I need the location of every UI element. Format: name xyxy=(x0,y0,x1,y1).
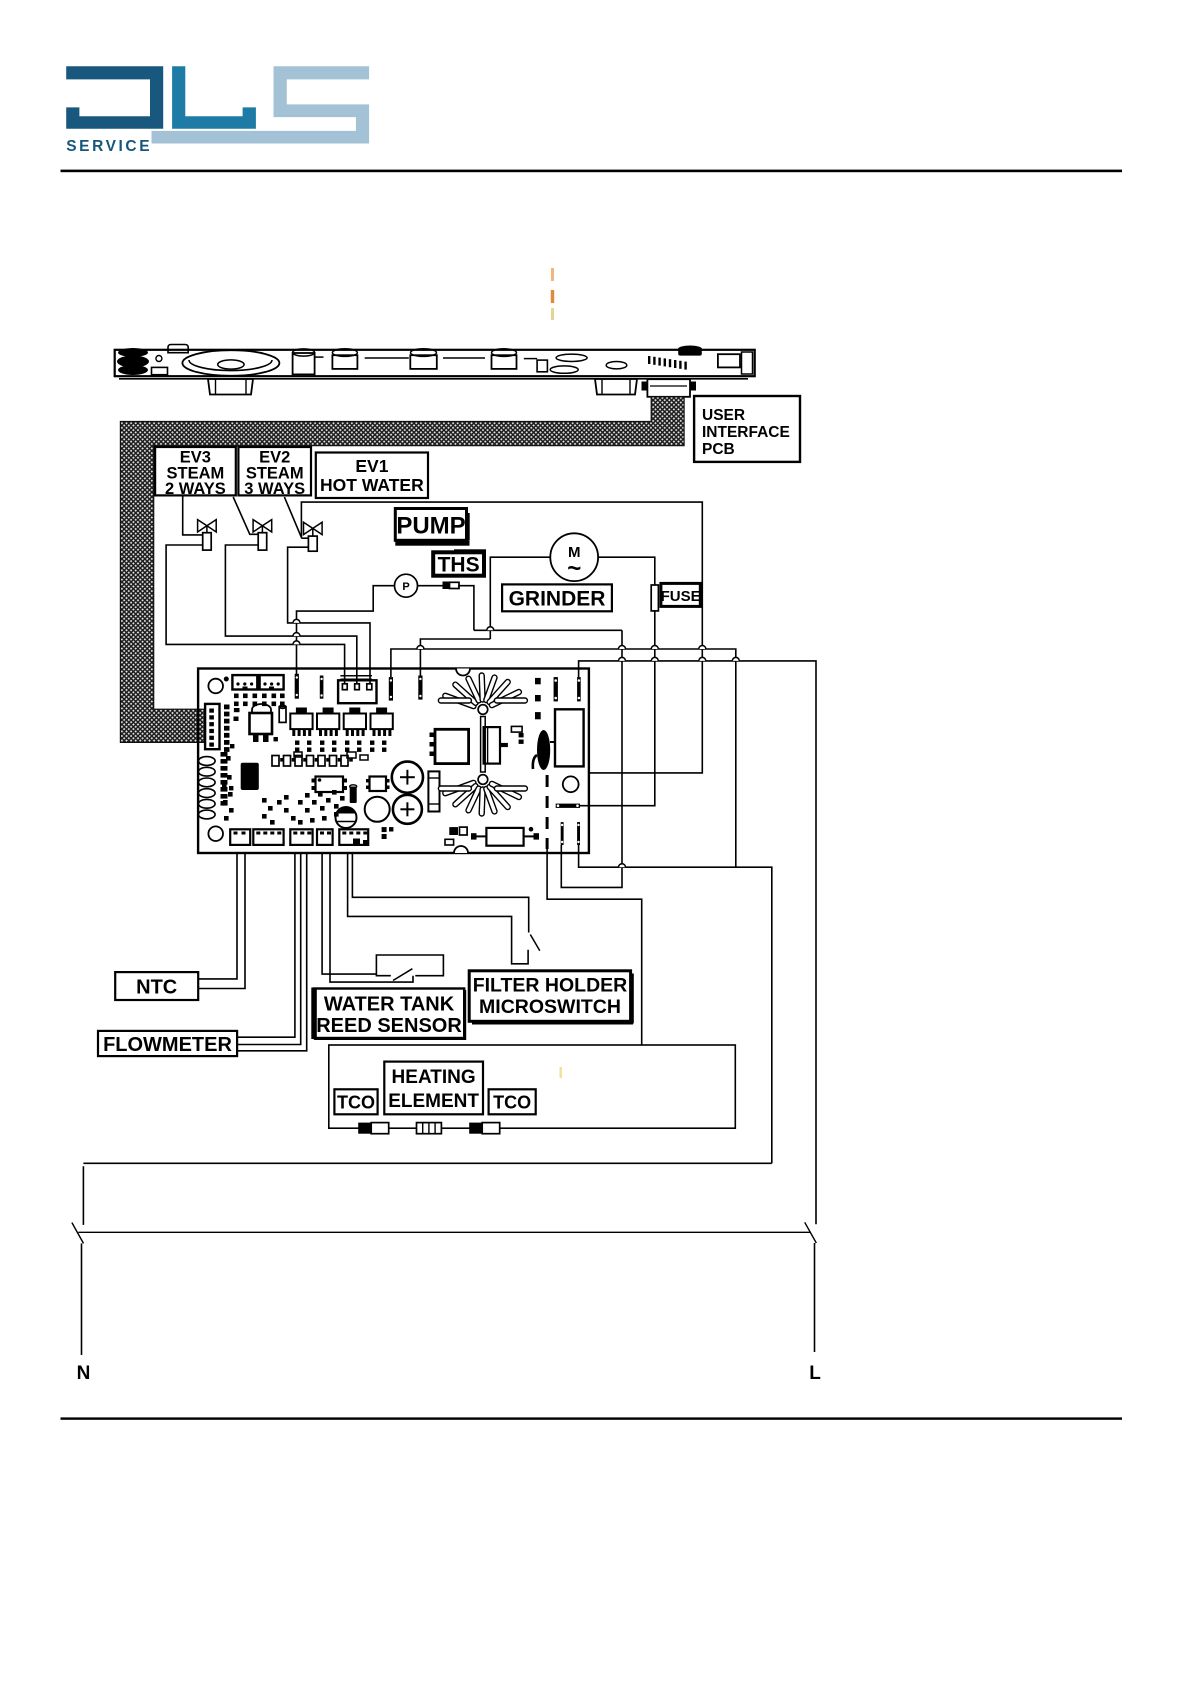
logo letter L mid blue xyxy=(172,66,256,129)
live cord break slash xyxy=(805,1222,817,1243)
label box GRINDER xyxy=(502,584,612,611)
heatsink center divider xyxy=(481,717,486,773)
wire grinder left to line A xyxy=(490,557,550,639)
wire NTC 2 xyxy=(198,853,245,989)
TCO thermal cutoff element right xyxy=(469,1123,482,1134)
UI PCB center oval xyxy=(606,362,627,369)
pump pressure sensor circle P xyxy=(395,574,418,597)
wire reed sensor 2 xyxy=(330,853,413,982)
connector J9 3-pin EV harness xyxy=(340,675,372,677)
top horizontal rule xyxy=(61,170,1123,173)
small rects mid xyxy=(347,752,356,758)
UI PCB LED cylinder xyxy=(293,353,315,374)
relay K2 xyxy=(317,714,339,730)
connector J1 3-pin xyxy=(232,675,257,689)
wire EV2 valve return to PCB connector xyxy=(225,545,356,684)
label box FLOWMETER xyxy=(98,1031,237,1056)
UI PCB trace line 2 xyxy=(443,357,485,359)
logo letter S light blue xyxy=(152,66,370,143)
wire flowmeter 1 xyxy=(237,853,295,1037)
connector J2 3-pin xyxy=(260,675,284,689)
UI PCB buzzer outer xyxy=(182,350,279,376)
wire flowmeter 3 xyxy=(237,853,307,1051)
wire EV3 valve return to PCB connector xyxy=(166,545,345,684)
label box EV3 STEAM 2 WAYS xyxy=(155,447,236,495)
passives column x535 xyxy=(535,678,541,684)
capacitor C3 xyxy=(365,797,390,822)
IC U1 dark xyxy=(241,763,259,790)
svg-text:TCO: TCO xyxy=(337,1093,375,1113)
label box NTC xyxy=(115,972,198,1000)
label box THS xyxy=(454,549,486,553)
ribbon cable to user interface PCB xyxy=(120,397,684,743)
passives left cluster xyxy=(226,756,231,761)
wire flowmeter 2 xyxy=(237,853,301,1045)
power PCB bottom notch xyxy=(454,846,468,853)
connector J8 ribbon header xyxy=(205,704,219,749)
wire NTC 1 xyxy=(198,853,237,979)
UI PCB small hole xyxy=(156,356,162,362)
wire live cord bottom xyxy=(814,1243,816,1352)
svg-text:HEATING: HEATING xyxy=(392,1067,476,1088)
svg-text:~: ~ xyxy=(567,555,581,582)
orange scan dashes xyxy=(551,268,554,281)
relay K4 xyxy=(371,714,393,730)
pad bar top 4 xyxy=(418,676,422,700)
svg-text:GRINDER: GRINDER xyxy=(509,588,606,611)
wire line A pump-grinder mains xyxy=(474,629,622,631)
wire PCB pad to line A xyxy=(420,639,490,677)
mains cord middle wire xyxy=(78,1231,810,1233)
svg-text:FUSE: FUSE xyxy=(661,588,701,605)
transistor Q3 xyxy=(484,727,500,764)
capacitor C5 small xyxy=(279,707,286,723)
wire heating element feed xyxy=(547,849,642,1045)
svg-text:TCO: TCO xyxy=(493,1093,531,1113)
power PCB board outline xyxy=(198,669,589,854)
capacitor C1 electrolytic xyxy=(392,762,423,793)
UI PCB tact switch 2 xyxy=(411,349,437,357)
label box USER INTERFACE PCB xyxy=(694,396,800,462)
card edge fingers left xyxy=(199,757,216,766)
grinder motor circle M xyxy=(550,533,598,581)
wire pump to PCB xyxy=(297,586,395,674)
pad bar top right 1 xyxy=(554,677,558,701)
bottom connector J3 xyxy=(230,829,250,845)
wire neutral cord top xyxy=(82,1166,84,1225)
logo letter D dark blue xyxy=(66,66,163,129)
UI PCB mounting tab left xyxy=(208,379,253,395)
wire enclosure mains loop xyxy=(301,502,702,773)
capacitor C6 dark cylinder xyxy=(350,787,357,804)
bottom connector J5 xyxy=(290,829,312,845)
svg-text:THS: THS xyxy=(438,554,480,577)
wire microswitch 2 xyxy=(348,853,528,964)
power PCB mounting hole bottom-left xyxy=(208,826,223,841)
fuse element xyxy=(651,585,658,611)
bottom connector J4 xyxy=(253,829,283,845)
UI PCB flat pads xyxy=(550,366,578,373)
relay K5 large xyxy=(555,709,584,766)
pad bar bottom right 1 xyxy=(561,822,564,845)
passives near J8 xyxy=(234,708,240,712)
THS thermal fuse element xyxy=(443,582,450,590)
pad bar bottom right 2 xyxy=(577,822,580,845)
wire line C live bus xyxy=(579,661,816,1224)
label box FUSE xyxy=(661,583,700,606)
UI PCB pin comb xyxy=(648,356,650,364)
heatsink starburst top xyxy=(445,696,473,706)
user interface PCB board strip xyxy=(115,350,755,376)
component bottom right pair xyxy=(449,827,458,835)
wire EV1 valve return to PCB connector xyxy=(288,547,370,684)
svg-text:USER: USER xyxy=(702,407,745,424)
bottom connector J7 xyxy=(339,829,368,845)
UI PCB left encoder stack xyxy=(118,348,148,357)
capacitor C2 electrolytic xyxy=(393,795,422,824)
small passives under J1 J2 xyxy=(234,694,239,699)
svg-text:L: L xyxy=(809,1363,821,1384)
passives column right of J8 xyxy=(224,705,230,710)
neutral cord break slash xyxy=(72,1223,84,1244)
svg-text:MICROSWITCH: MICROSWITCH xyxy=(479,996,621,1018)
transistor Q2 TO-247 xyxy=(435,729,469,763)
power PCB mounting hole top-left xyxy=(208,679,223,694)
bottom connector J6 xyxy=(317,829,333,845)
label box EV2 STEAM 3 WAYS xyxy=(238,447,311,495)
svg-text:P: P xyxy=(402,581,409,593)
inductor L1 dark xyxy=(537,730,550,770)
UI PCB tact switch 3 xyxy=(492,349,517,357)
relay K1 xyxy=(290,714,312,730)
label box TCO left xyxy=(334,1089,377,1114)
wire EV3 label to valve xyxy=(183,495,203,535)
label box EV1 HOT WATER xyxy=(316,453,428,499)
label box HEATING ELEMENT xyxy=(384,1062,483,1115)
svg-text:FILTER HOLDER: FILTER HOLDER xyxy=(473,975,628,997)
UI PCB mounting tab right xyxy=(595,379,637,395)
svg-text:NTC: NTC xyxy=(136,977,177,999)
pad bar top right 2 xyxy=(577,677,581,701)
UI PCB right edge parts xyxy=(742,352,753,374)
svg-text:HOT WATER: HOT WATER xyxy=(320,475,424,495)
wire grinder right to fuse xyxy=(598,557,655,585)
crystal Y1 xyxy=(486,828,523,846)
water tank reed sensor switch symbol xyxy=(376,955,443,976)
UI PCB trace line xyxy=(365,357,409,359)
UI PCB buzzer inner ring xyxy=(189,360,272,371)
passives row under relays xyxy=(295,741,299,745)
solenoid valve EV3 xyxy=(198,520,207,532)
svg-text:FLOWMETER: FLOWMETER xyxy=(103,1034,232,1056)
IC U3 opto xyxy=(370,777,387,792)
label box WATER TANK REED SENSOR xyxy=(314,989,464,1039)
power PCB top notch xyxy=(456,669,470,676)
svg-text:EV1: EV1 xyxy=(355,456,388,476)
solenoid valve EV2 xyxy=(253,520,262,532)
transistor row xyxy=(272,756,279,767)
UI PCB dark part right xyxy=(678,348,702,355)
UI PCB ribbon connector xyxy=(647,379,690,397)
wire reed sensor 1 xyxy=(322,853,376,974)
power PCB mounting hole right xyxy=(563,776,579,792)
wire neutral cord bottom xyxy=(81,1243,83,1355)
svg-text:INTERFACE: INTERFACE xyxy=(702,424,790,441)
svg-text:2 WAYS: 2 WAYS xyxy=(165,480,226,498)
crossing hops xyxy=(487,627,494,630)
UI PCB tact switch 1 xyxy=(332,349,357,357)
UI PCB buzzer hub xyxy=(218,360,244,369)
label box FILTER HOLDER MICROSWITCH xyxy=(469,971,630,1022)
svg-text:ELEMENT: ELEMENT xyxy=(388,1091,479,1112)
transistor Q1 TO-252 xyxy=(252,704,271,713)
heating element resistor xyxy=(417,1123,442,1134)
pad bar top 3 xyxy=(389,677,393,701)
TCO thermal cutoff element left xyxy=(358,1123,371,1134)
svg-text:N: N xyxy=(77,1363,91,1384)
relay K3 xyxy=(344,714,366,730)
wire THS to mains line A xyxy=(458,586,474,631)
label box PUMP xyxy=(395,509,466,541)
resistor R1 vertical xyxy=(428,771,439,811)
heatsink starburst bottom xyxy=(445,783,473,793)
left column bars 303 xyxy=(221,752,228,757)
svg-text:PCB: PCB xyxy=(702,441,735,458)
wire EV2 label to valve xyxy=(233,497,258,534)
wire microswitch 1 xyxy=(352,853,528,933)
pad bar top 2 xyxy=(320,676,324,699)
isolation dashed line xyxy=(546,775,549,849)
filter holder microswitch blade xyxy=(530,935,540,951)
svg-text:SERVICE: SERVICE xyxy=(66,138,152,155)
svg-text:WATER TANK: WATER TANK xyxy=(324,994,455,1016)
wire pump to THS fuse xyxy=(418,585,445,587)
label box TCO right xyxy=(489,1089,536,1114)
UI PCB right connector part xyxy=(718,354,740,367)
bottom horizontal rule xyxy=(61,1417,1123,1419)
passives right of Q3 xyxy=(511,726,522,732)
wire line B neutral bus xyxy=(391,649,736,867)
UI PCB top bump connector xyxy=(168,345,188,353)
pad bar top 1 xyxy=(295,674,299,699)
heating circuit enclosure xyxy=(329,1045,736,1128)
UI PCB small part 2 xyxy=(524,358,537,360)
wire EV1 label pointer xyxy=(284,497,301,537)
svg-text:PUMP: PUMP xyxy=(396,513,465,540)
svg-text:3 WAYS: 3 WAYS xyxy=(244,480,305,498)
bottom center passives xyxy=(382,827,387,832)
wire fuse to PCB resistor xyxy=(580,611,655,806)
potentiometer VR1 xyxy=(336,807,357,828)
svg-text:REED SENSOR: REED SENSOR xyxy=(316,1015,462,1037)
IC U2 opto xyxy=(316,777,344,793)
UI PCB small part xyxy=(152,367,168,374)
solenoid valve EV1 xyxy=(304,522,313,534)
resistor R2 bar xyxy=(556,804,580,808)
